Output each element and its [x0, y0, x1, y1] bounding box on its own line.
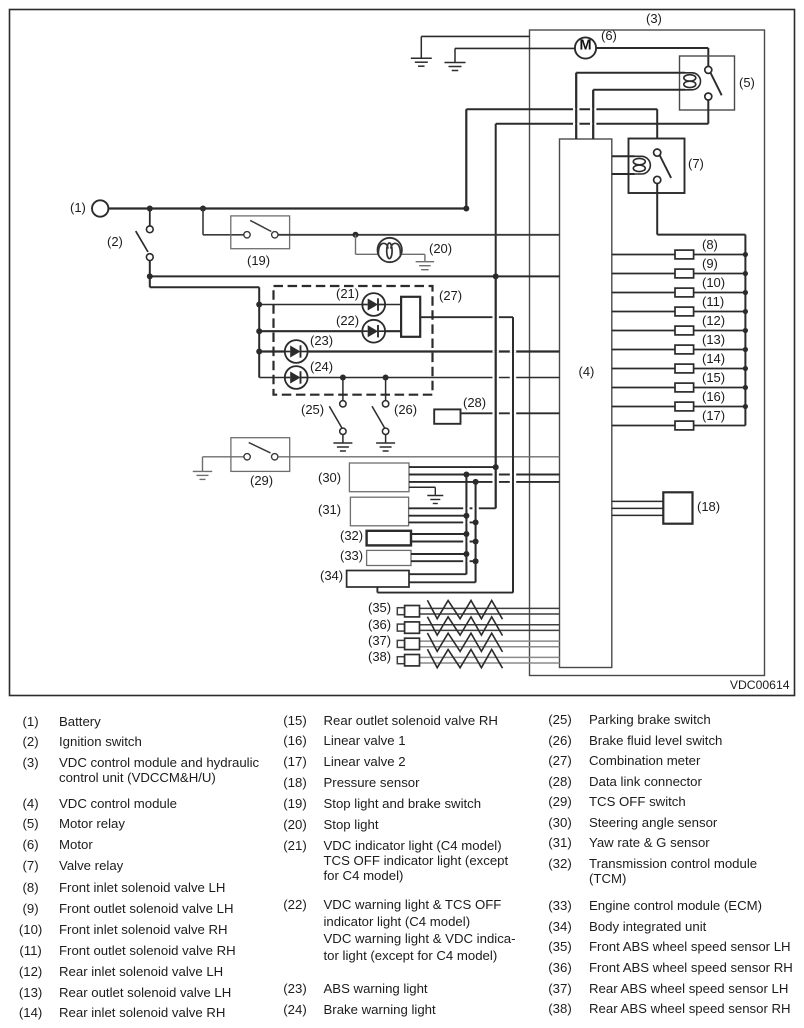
data link connector (28): [434, 409, 460, 423]
label (27): [439, 289, 462, 302]
solenoid valve (8): [675, 250, 694, 259]
solenoid valve (10): [675, 288, 694, 297]
wire valve (14) to bus: [694, 368, 746, 370]
junction valve bus row 14: [743, 366, 748, 371]
motor relay box (5): [680, 56, 735, 110]
label (17): [702, 409, 725, 422]
wire valve (11) to bus: [694, 311, 746, 313]
sensor (37) wire A: [405, 640, 560, 642]
wire sensor31 w3: [409, 521, 476, 523]
legend item (15): [283, 714, 306, 727]
label (15): [702, 371, 725, 384]
junction lamp bus row23: [256, 349, 262, 355]
wire lamp24 to module: [308, 377, 560, 379]
legend item (29): [548, 795, 571, 808]
VDC control module box (4): [560, 139, 612, 668]
wire lamp22 to meter block: [385, 330, 401, 332]
label (10): [702, 276, 725, 289]
sensor (36) wire B: [405, 629, 560, 631]
sensor feed vertical redraw: [495, 276, 497, 508]
legend item (11): [19, 943, 41, 956]
wire meter to BIU horizontal: [377, 592, 513, 594]
VDC warning light (22): [362, 320, 385, 343]
TCS OFF switch box (29): [231, 438, 290, 472]
wire module to valve (17): [612, 425, 675, 427]
wire bulb to ground: [402, 253, 425, 255]
label (28): [463, 396, 486, 409]
relay7 coil: [633, 156, 650, 174]
legend item (32): [548, 857, 571, 870]
wire main to ignition switch: [149, 209, 151, 226]
junction bus B top: [473, 479, 479, 485]
sensor (38) twisted pair zigzag: [427, 649, 502, 668]
wire relay5 contact down: [707, 100, 709, 124]
sensor (38) plug: [405, 655, 420, 666]
combination meter box (27): [274, 286, 433, 395]
wire pressure sensor pin 2: [612, 507, 664, 509]
wire coilB down to module: [592, 90, 594, 139]
legend item (10): [19, 922, 42, 935]
ground parking switch (25): [333, 435, 352, 452]
wire coilA down to module: [575, 73, 577, 139]
solenoid valve (9): [675, 269, 694, 278]
sensor bus B: [475, 482, 477, 582]
stop light bulb (20): [378, 238, 402, 262]
ignition switch blade: [136, 231, 148, 252]
valve relay box (7): [629, 139, 685, 194]
ground stop light: [416, 254, 435, 269]
junction lamp bus row21: [256, 302, 262, 308]
label (19): [247, 254, 270, 267]
label (22): [336, 314, 359, 327]
wire module to valve (11): [612, 311, 675, 313]
wire battery riser x466: [465, 109, 467, 208]
wire horizontal y109: [466, 108, 657, 110]
switch19 right contact: [272, 232, 278, 238]
label (4): [579, 365, 595, 378]
label (30): [318, 471, 341, 484]
solenoid valve (14): [675, 364, 694, 373]
wire sensor31 w2: [409, 515, 467, 517]
junction main/stoplight switch: [200, 206, 206, 212]
switch19 left contact: [244, 232, 250, 238]
label (14): [702, 352, 725, 365]
legend item (33): [548, 899, 571, 912]
meter-BIU vertical redraw: [512, 317, 514, 592]
sensor (35) wire A: [405, 607, 560, 609]
legend item (5): [23, 817, 39, 830]
wire ground2 to motor: [455, 47, 575, 49]
legend item (1): [23, 714, 39, 727]
legend item (22): [283, 898, 306, 911]
junction busA ECM: [463, 551, 469, 557]
junction valve bus row 9: [743, 271, 748, 276]
junction valve bus row 11: [743, 309, 748, 314]
junction valve bus row 12: [743, 328, 748, 333]
legend item (23): [283, 982, 306, 995]
relay7 bottom contact: [654, 176, 661, 183]
relay7 switch blade: [660, 156, 671, 178]
solenoid valve (16): [675, 402, 694, 411]
wire module to valve (12): [612, 330, 675, 332]
TCS switch blade: [249, 443, 271, 453]
junction ignition output: [147, 273, 153, 279]
legend item (34): [548, 919, 571, 932]
label (35): [368, 601, 391, 614]
wire lamp24 to parking switch: [342, 378, 344, 401]
wire brake switch to module: [278, 234, 560, 236]
wire valve (12) to bus: [694, 330, 746, 332]
lamp bus vertical: [258, 287, 260, 377]
sensor (35) twisted pair zigzag: [427, 600, 502, 619]
legend item (8): [23, 881, 39, 894]
junction busB ECM: [473, 558, 479, 564]
wire into brake switch: [203, 234, 244, 236]
sensor bus B redraw: [475, 482, 477, 582]
figure code VDC00614: [730, 678, 790, 690]
wire ground1 to unit: [421, 35, 529, 37]
ignition feed wire to module: [150, 275, 560, 277]
label (23): [310, 334, 333, 347]
label (5): [739, 76, 755, 89]
wire TCS switch to module: [278, 456, 560, 458]
wire valve (8) to bus: [694, 254, 746, 256]
label (21): [336, 287, 359, 300]
label (37): [368, 634, 391, 647]
TCS switch right contact: [272, 454, 278, 460]
wire BIU stem: [376, 587, 378, 593]
wire module to valve (10): [612, 292, 675, 294]
wire motor to relay5 contact: [596, 47, 708, 49]
motor letter M: [579, 39, 591, 54]
junction sensor feed: [493, 464, 499, 470]
wire ignition down: [149, 261, 151, 277]
legend item (13): [19, 985, 42, 998]
wire ECM w2: [411, 560, 476, 562]
wire meter block output: [420, 316, 513, 318]
wire to lamp bus corner: [150, 286, 259, 288]
legend item (9): [23, 902, 39, 915]
relay5 switch blade: [711, 73, 722, 95]
legend item (26): [548, 734, 571, 747]
junction main/riser: [463, 206, 469, 212]
wire coilA vertical redraw: [575, 73, 577, 139]
label (36): [368, 618, 391, 631]
legend item (14): [19, 1006, 42, 1019]
main battery wire: [108, 207, 466, 209]
parking switch bottom contact: [340, 428, 346, 434]
junction valve bus row 10: [743, 290, 748, 295]
wire module to valve (16): [612, 406, 675, 408]
wire relay5 coil A: [576, 72, 685, 74]
wire module to valve (15): [612, 387, 675, 389]
brake warning light (24): [285, 366, 308, 389]
wire meter to BIU vertical: [512, 317, 514, 592]
sensor bus A redraw: [465, 475, 467, 575]
label (1): [70, 201, 86, 214]
legend item (20): [283, 818, 306, 831]
junction valve bus row 8: [743, 252, 748, 257]
wire module to valve (9): [612, 273, 675, 275]
solenoid valve (13): [675, 345, 694, 354]
ignition sensor feed vertical x496 lower: [495, 276, 497, 508]
legend item (35): [548, 940, 571, 953]
relay7 top contact: [654, 149, 661, 156]
steering angle sensor box (30): [349, 463, 409, 492]
sensor (35) plug: [405, 606, 420, 617]
wire down to relay5 top contact: [707, 48, 709, 66]
sensor (38) wire A: [405, 656, 560, 658]
legend item (7): [23, 859, 39, 872]
sensor (36) twisted pair zigzag: [427, 617, 502, 636]
motor M (6): [575, 37, 596, 58]
sensor (38) wire B: [405, 662, 560, 664]
valve supply bus: [744, 235, 746, 426]
legend item (4): [23, 796, 39, 809]
wire valve (13) to bus: [694, 349, 746, 351]
junction stop light: [353, 232, 359, 238]
label (20): [429, 242, 452, 255]
legend item (36): [548, 961, 571, 974]
sensor (36) plug: [405, 622, 420, 633]
label (38): [368, 650, 391, 663]
label (9): [702, 257, 718, 270]
wire valve (17) to bus: [694, 425, 746, 427]
legend item (37): [548, 981, 571, 994]
engine control module box (33): [367, 550, 411, 565]
wire to lamp 21: [259, 304, 362, 306]
wire sensor31 w1: [409, 507, 496, 509]
sensor (37) plug small: [397, 640, 404, 647]
legend item (6): [23, 838, 39, 851]
transmission control module box (32): [367, 531, 411, 546]
ignition switch top contact: [146, 226, 153, 233]
junction valve bus row 16: [743, 404, 748, 409]
wire down to stop light: [355, 235, 357, 255]
junction lamp bus row22: [256, 328, 262, 334]
label (25): [301, 403, 324, 416]
junction valve bus row 13: [743, 347, 748, 352]
legend item (38): [548, 1002, 571, 1015]
sensor (35) wire B: [405, 613, 560, 615]
ground fluid switch (26): [376, 435, 395, 452]
bulb filament: [378, 243, 400, 259]
wire sensor30 w1: [409, 466, 496, 468]
label (2): [107, 235, 123, 248]
wire relay7 coil A to module: [612, 155, 635, 157]
legend item (18): [283, 776, 306, 789]
junction lamp24/fluid switch: [383, 375, 389, 381]
wire TCM w2: [411, 541, 476, 543]
junction valve bus row 15: [743, 385, 748, 390]
wire main to brake switch: [202, 209, 204, 235]
wire to valve bus: [657, 234, 745, 236]
wire relay7 coil B to module: [612, 173, 635, 175]
junction lamp24/parking switch: [340, 375, 346, 381]
sensor bus A: [465, 475, 467, 575]
label (11): [702, 295, 724, 308]
parking switch top contact: [340, 401, 346, 407]
VDC indicator light (21): [362, 293, 385, 316]
wire pressure sensor pin 1: [612, 500, 664, 502]
wire ECM w1: [411, 553, 466, 555]
meter driver block: [401, 297, 420, 337]
wire TCM w1: [411, 533, 466, 535]
junction ignition/sensor feed: [493, 273, 499, 279]
sensor (36) wire A: [405, 624, 560, 626]
wire down to relay7 top contact: [656, 109, 658, 149]
label (13): [702, 333, 725, 346]
label (16): [702, 390, 725, 403]
wire sensor30 ground lead: [409, 486, 435, 488]
battery terminal (1): [92, 200, 108, 216]
junction main/ignition: [147, 206, 153, 212]
wire ignition feed vertical x496 upper: [495, 124, 497, 277]
wire valve (15) to bus: [694, 387, 746, 389]
label (32): [340, 529, 363, 542]
ground TCS OFF switch: [193, 457, 213, 480]
legend item (3): [23, 755, 39, 768]
wire sensor30 w3: [409, 481, 560, 483]
junction busB sensor31: [473, 519, 479, 525]
legend item (28): [548, 774, 571, 787]
wire valve (10) to bus: [694, 292, 746, 294]
wire valve (16) to bus: [694, 406, 746, 408]
VDC control module and hydraulic unit box (3): [530, 30, 765, 676]
wire to lamp 22: [259, 330, 362, 332]
wire lamp23 to module: [308, 350, 560, 352]
ground sensor30: [427, 487, 443, 503]
legend item (12): [19, 964, 42, 977]
solenoid valve (17): [675, 421, 694, 430]
yaw rate and G sensor box (31): [350, 497, 408, 526]
junction busB TCM: [473, 539, 479, 545]
label (8): [702, 238, 718, 251]
fluid switch top contact: [382, 401, 388, 407]
label (12): [702, 314, 725, 327]
sensor (36) plug small: [397, 624, 404, 631]
label (3): [646, 12, 662, 25]
legend item (25): [548, 713, 571, 726]
wire module to valve (14): [612, 368, 675, 370]
legend item (30): [548, 815, 571, 828]
label (18): [697, 500, 720, 513]
border frame: [10, 10, 795, 696]
wire lamp21 to meter block: [385, 304, 401, 306]
solenoid valve (12): [675, 326, 694, 335]
junction busA sensor31: [463, 513, 469, 519]
legend item (21): [283, 838, 306, 851]
parking switch blade: [329, 406, 342, 428]
wire DLC to module: [461, 412, 560, 414]
legend item (19): [283, 797, 306, 810]
wire to stop light bulb: [356, 253, 378, 255]
ABS warning light (23): [285, 340, 308, 363]
junction bus A top: [463, 472, 469, 478]
wire lamp24 to fluid switch: [385, 378, 387, 401]
label (33): [340, 549, 363, 562]
ground G2: [445, 48, 466, 70]
junction busA TCM: [463, 531, 469, 537]
wire module to valve (8): [612, 254, 675, 256]
wire BIU w1: [409, 573, 466, 575]
wire ignition to lamp bus: [149, 276, 151, 287]
legend item (17): [283, 754, 306, 767]
sensor (37) twisted pair zigzag: [427, 633, 502, 652]
sensor (37) wire B: [405, 646, 560, 648]
fluid switch blade: [372, 406, 385, 428]
relay5 top contact: [705, 66, 712, 73]
wire lamp bus to lamp 24: [259, 377, 285, 379]
wire BIU w2: [409, 581, 476, 583]
stop light and brake switch box (19): [231, 216, 290, 249]
label (26): [394, 403, 417, 416]
wire sensor30 w2: [409, 474, 560, 476]
body integrated unit box (34): [347, 571, 409, 588]
pressure sensor (18): [663, 492, 692, 523]
solenoid valve (15): [675, 383, 694, 392]
relay5 bottom contact: [705, 93, 712, 100]
sensor (35) plug small: [397, 608, 404, 615]
label (6): [601, 29, 617, 42]
switch19 blade: [250, 220, 271, 231]
TCS switch left contact: [244, 454, 250, 460]
sensor (37) plug: [405, 638, 420, 649]
ground G1: [411, 36, 432, 66]
legend item (31): [548, 836, 571, 849]
label (29): [250, 474, 273, 487]
legend item (16): [283, 734, 306, 747]
legend item (2): [23, 735, 39, 748]
wire relay5 coil B: [593, 89, 685, 91]
sensor (38) plug small: [397, 657, 404, 664]
wire pressure sensor pin 3: [612, 514, 664, 516]
wire ground to TCS switch: [203, 456, 245, 458]
wire coilB vertical redraw: [592, 90, 594, 139]
legend item (27): [548, 754, 571, 767]
wire to lamp 23: [259, 350, 285, 352]
label (34): [320, 569, 343, 582]
ignition switch bottom contact: [146, 254, 153, 261]
wire horizontal y124: [496, 123, 709, 125]
wire module to valve (13): [612, 349, 675, 351]
relay5 coil: [684, 73, 701, 90]
wire valve (9) to bus: [694, 273, 746, 275]
wire relay7 contact down: [656, 184, 658, 235]
label (7): [688, 157, 704, 170]
legend item (24): [283, 1003, 306, 1016]
solenoid valve (11): [675, 307, 694, 316]
label (24): [310, 360, 333, 373]
fluid switch bottom contact: [382, 428, 388, 434]
label (31): [318, 503, 341, 516]
